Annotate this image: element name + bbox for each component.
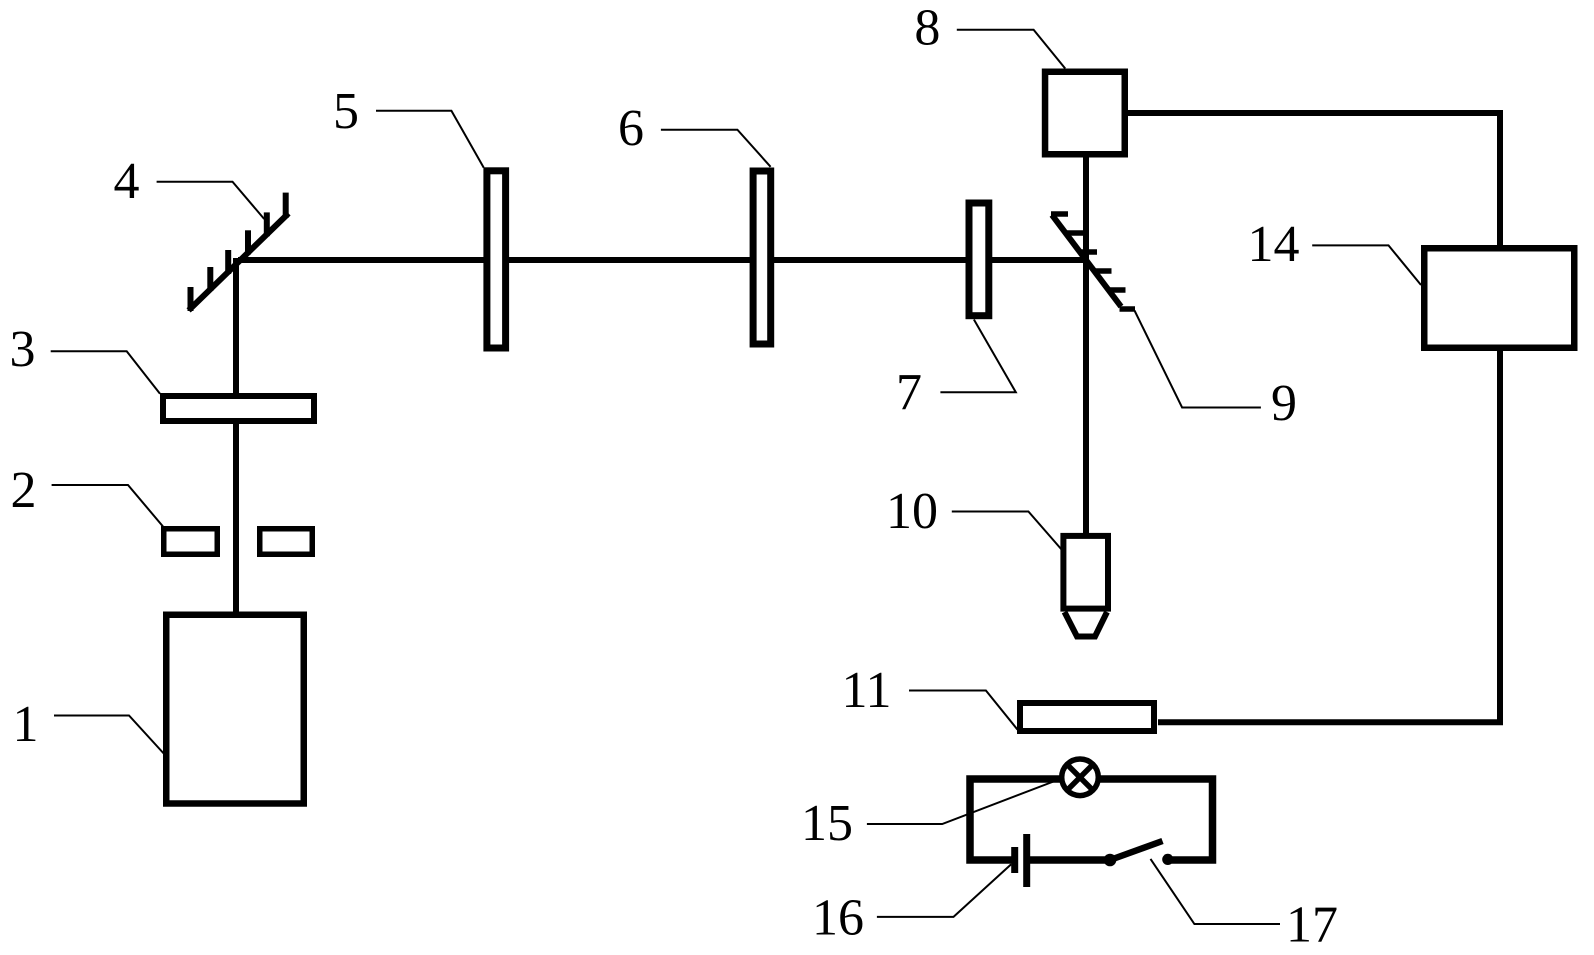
svg-text:10: 10: [886, 483, 938, 540]
switch 17 left contact dot: [1104, 854, 1117, 867]
svg-text:11: 11: [841, 662, 891, 719]
leader for label 10: [952, 512, 1063, 551]
svg-text:15: 15: [801, 795, 853, 852]
battery 16 short plate: [1011, 847, 1018, 873]
wire loop top-right and right edge: [1100, 779, 1213, 860]
switch 17 lever: [1110, 841, 1163, 860]
nozzle 10 tip: [1065, 612, 1108, 637]
box 8: [1045, 72, 1125, 155]
wire battery to switch: [1030, 856, 1110, 864]
svg-text:3: 3: [10, 321, 36, 378]
leader for label 16: [877, 864, 1011, 917]
element 3 bar: [163, 396, 314, 421]
leader for label 4: [157, 182, 265, 219]
leader for label 14: [1312, 245, 1421, 285]
wire vertical laser axis from mirror 4 down to box 1: [233, 258, 239, 614]
nozzle 10 body: [1063, 536, 1108, 609]
beamsplitter 9 hatch ticks: [1051, 214, 1135, 309]
beamsplitter 9 diagonal: [1052, 215, 1121, 307]
svg-text:2: 2: [11, 462, 37, 519]
wire from box 8 right side to box 14 top: [1126, 113, 1500, 248]
detector 11: [1020, 703, 1154, 731]
leader for label 17: [1151, 859, 1281, 924]
svg-text:14: 14: [1248, 216, 1300, 273]
svg-text:5: 5: [333, 83, 359, 140]
svg-text:1: 1: [13, 696, 39, 753]
leader for label 7: [940, 320, 1015, 393]
wire horizontal beam from mirror 4 to beamsplitter 9: [238, 257, 1089, 263]
circuit loop wires: [970, 779, 1213, 860]
svg-text:9: 9: [1271, 375, 1297, 432]
svg-text:17: 17: [1286, 897, 1338, 954]
lamp 15 circle: [1062, 759, 1099, 796]
leader for label 5: [376, 111, 484, 168]
svg-text:8: 8: [914, 0, 940, 56]
leader for label 9: [1135, 311, 1261, 408]
element 2 left plate: [164, 529, 218, 555]
box 1 (laser power supply): [166, 615, 304, 804]
element 5 plate: [487, 171, 506, 348]
svg-text:6: 6: [618, 100, 644, 157]
element 7 plate: [969, 203, 989, 316]
svg-text:16: 16: [812, 890, 864, 947]
wire loop top-left segment: [970, 779, 1061, 860]
leader for label 6: [661, 130, 771, 167]
wire from box 14 bottom down and left to detector 11: [1158, 348, 1500, 722]
mirror 4 diagonal: [189, 213, 289, 310]
leader for label 15: [867, 780, 1059, 825]
battery 16 long plate: [1023, 834, 1030, 887]
leader for label 2: [52, 485, 163, 527]
element 6 plate: [753, 171, 771, 344]
element 2 right plate: [260, 529, 313, 555]
wire vertical from box 8 through beamsplitter 9 to nozzle 10: [1083, 155, 1089, 536]
leader for label 11: [909, 691, 1018, 730]
svg-text:7: 7: [896, 364, 922, 421]
mirror 4 hatch ticks: [191, 193, 286, 311]
switch 17 right contact dot: [1162, 854, 1173, 865]
svg-text:4: 4: [114, 153, 140, 210]
leader for label 3: [51, 351, 160, 394]
leader for label 1: [54, 716, 166, 757]
box 14: [1424, 248, 1574, 348]
leader for label 8: [957, 30, 1065, 69]
lamp 15 cross: [1067, 765, 1092, 790]
